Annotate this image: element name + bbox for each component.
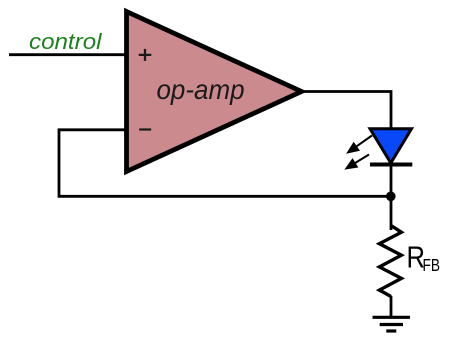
svg-text:control: control (29, 29, 103, 54)
svg-text:FB: FB (423, 255, 441, 275)
svg-text:op-amp: op-amp (157, 74, 245, 105)
